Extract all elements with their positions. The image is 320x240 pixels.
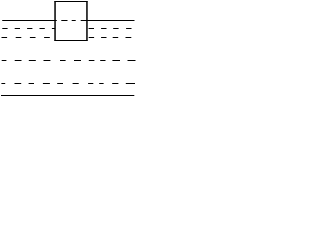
ground plane (solid bottom line) <box>1 95 134 97</box>
wire: dashed conductor line 3, left segment <box>2 37 50 39</box>
wire: dashed conductor line 5 (full width) <box>1 83 135 85</box>
network box U1 <box>54 1 87 41</box>
wire: main conductor line 1, left solid segment (enters box) <box>2 20 57 22</box>
wire: dashed conductor line 4 (full width) <box>2 60 136 62</box>
wire: dashed conductor line 2, right segment <box>89 28 132 30</box>
wire: dashed conductor line 2, left segment (ends at network box) <box>2 28 55 30</box>
wire: main conductor line 1, dashed segment inside box <box>61 20 75 22</box>
wire: main conductor line 1, right solid segment (exits box) <box>81 20 135 22</box>
wire: dashed conductor line 3, right segment <box>89 37 132 39</box>
